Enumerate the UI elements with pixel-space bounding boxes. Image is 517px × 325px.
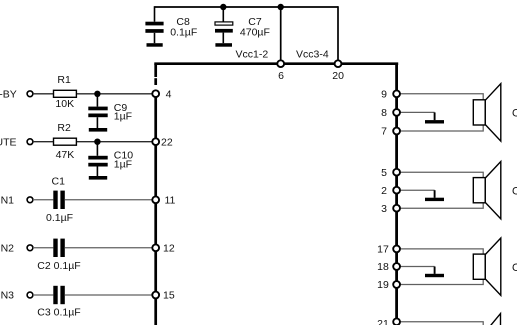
wire C3 to pin 15 [65, 294, 153, 296]
node junction pin 6 riser [278, 4, 284, 10]
node junction R2/C10 [94, 139, 100, 145]
svg-text:7: 7 [381, 126, 387, 138]
capacitor C7 [215, 7, 270, 43]
svg-text:3: 3 [381, 203, 387, 215]
capacitor C3 [37, 286, 80, 319]
terminal IN3 [0, 290, 33, 302]
terminal IN2 [0, 243, 33, 255]
wire pin 2 to ground [400, 189, 435, 191]
terminal IN1 [0, 195, 33, 207]
pin 3 [381, 203, 400, 215]
svg-text:20: 20 [332, 70, 344, 82]
wire pin 17 to speaker LS3 [400, 249, 484, 255]
IC U1 outline [154, 64, 398, 325]
svg-text:5: 5 [381, 167, 387, 179]
svg-text:O: O [512, 262, 517, 274]
svg-text:C2 0.1µF: C2 0.1µF [37, 260, 80, 272]
svg-text:470µF: 470µF [240, 27, 270, 39]
svg-text:21: 21 [377, 318, 389, 325]
wire MUTE to pin 22 [33, 141, 153, 143]
speaker LS1 [473, 84, 517, 141]
wire IN3 to C3 [33, 294, 53, 296]
node junction R1/C9 [94, 91, 100, 97]
svg-text:R1: R1 [57, 74, 71, 86]
wire pin 19 to speaker LS3 [400, 279, 484, 285]
pin 7 [381, 126, 400, 138]
pin 2 [381, 185, 400, 197]
wire pin 21 to speaker LS4 [400, 322, 484, 325]
svg-text:C3 0.1µF: C3 0.1µF [37, 306, 80, 318]
pin 9 [381, 89, 400, 101]
svg-text:17: 17 [377, 244, 389, 256]
capacitor C8 [145, 6, 197, 43]
pin 4 [152, 88, 171, 100]
pin 5 [381, 167, 400, 179]
node junction C7 top [220, 4, 226, 10]
svg-text:ST-BY: ST-BY [0, 89, 17, 101]
speaker LS3 [473, 238, 517, 295]
svg-text:MUTE: MUTE [0, 137, 17, 149]
svg-text:1µF: 1µF [114, 111, 132, 123]
svg-text:19: 19 [377, 279, 389, 291]
ground under C10 [89, 176, 107, 180]
svg-text:IN3: IN3 [0, 290, 14, 302]
svg-text:IN2: IN2 [0, 243, 14, 255]
svg-text:8: 8 [381, 107, 387, 119]
ground at pin 18 [425, 274, 444, 277]
ground under C8 [147, 43, 163, 47]
ground at pin 8 [425, 120, 444, 123]
wire C1 to pin 11 [65, 199, 153, 201]
wire pin 3 to speaker LS2 [400, 202, 484, 208]
svg-text:18: 18 [377, 261, 389, 273]
svg-text:6: 6 [278, 70, 284, 82]
resistor R1 [54, 74, 77, 110]
svg-text:12: 12 [163, 243, 175, 255]
resistor R2 [54, 122, 77, 161]
wire Vcc supply rail [155, 6, 339, 8]
wire IN2 to C2 [33, 247, 53, 249]
pin 6 [277, 60, 284, 82]
pin 8 [381, 107, 400, 119]
wire riser to pin 6 [280, 7, 282, 64]
svg-text:Vcc1-2: Vcc1-2 [236, 49, 269, 61]
svg-text:0.1µF: 0.1µF [170, 27, 197, 39]
speaker LS2 [473, 162, 517, 219]
terminal MUTE [0, 137, 33, 149]
svg-text:IN1: IN1 [0, 195, 14, 207]
pin 17 [377, 244, 400, 256]
wire pin 18 to ground [400, 266, 435, 268]
ground under C7 [215, 43, 232, 47]
capacitor C10 [88, 142, 133, 176]
wire riser to pin 20 [337, 6, 339, 64]
svg-text:22: 22 [161, 136, 173, 148]
svg-text:Vcc3-4: Vcc3-4 [296, 48, 329, 60]
pin 18 [377, 261, 400, 273]
svg-text:0.1µF: 0.1µF [46, 212, 73, 224]
wire C2 to pin 12 [65, 247, 153, 249]
capacitor C9 [88, 94, 132, 128]
svg-text:O: O [512, 185, 517, 197]
ground at pin 2 [425, 198, 444, 201]
wire pin 7 to speaker LS1 [400, 125, 484, 131]
pin 22 [152, 136, 173, 148]
wire pin 5 to speaker LS2 [400, 172, 484, 178]
pin 19 [377, 279, 400, 291]
capacitor C1 [46, 175, 73, 224]
svg-text:2: 2 [381, 185, 387, 197]
svg-text:4: 4 [166, 88, 172, 100]
svg-text:O: O [512, 108, 517, 120]
svg-text:10K: 10K [55, 98, 74, 110]
svg-text:11: 11 [165, 195, 176, 207]
wire IN1 to C1 [33, 199, 53, 201]
pin 20 [332, 60, 344, 82]
svg-text:R2: R2 [57, 122, 71, 134]
pin 15 [152, 290, 175, 302]
speaker LS4 [485, 314, 500, 325]
ground under C9 [89, 128, 107, 132]
svg-text:15: 15 [163, 290, 175, 302]
wire ST-BY to pin 4 [33, 93, 153, 95]
pin 12 [152, 243, 175, 255]
wire pin 8 to ground [400, 111, 435, 113]
wire pin 9 to speaker LS1 [400, 94, 484, 100]
svg-text:47K: 47K [56, 149, 75, 161]
svg-text:9: 9 [381, 89, 387, 101]
pin 11 [152, 195, 175, 207]
svg-text:C1: C1 [52, 175, 66, 187]
capacitor C2 [37, 239, 80, 272]
pin 21 [377, 318, 400, 325]
terminal ST-BY [0, 89, 33, 101]
svg-text:1µF: 1µF [114, 158, 132, 170]
